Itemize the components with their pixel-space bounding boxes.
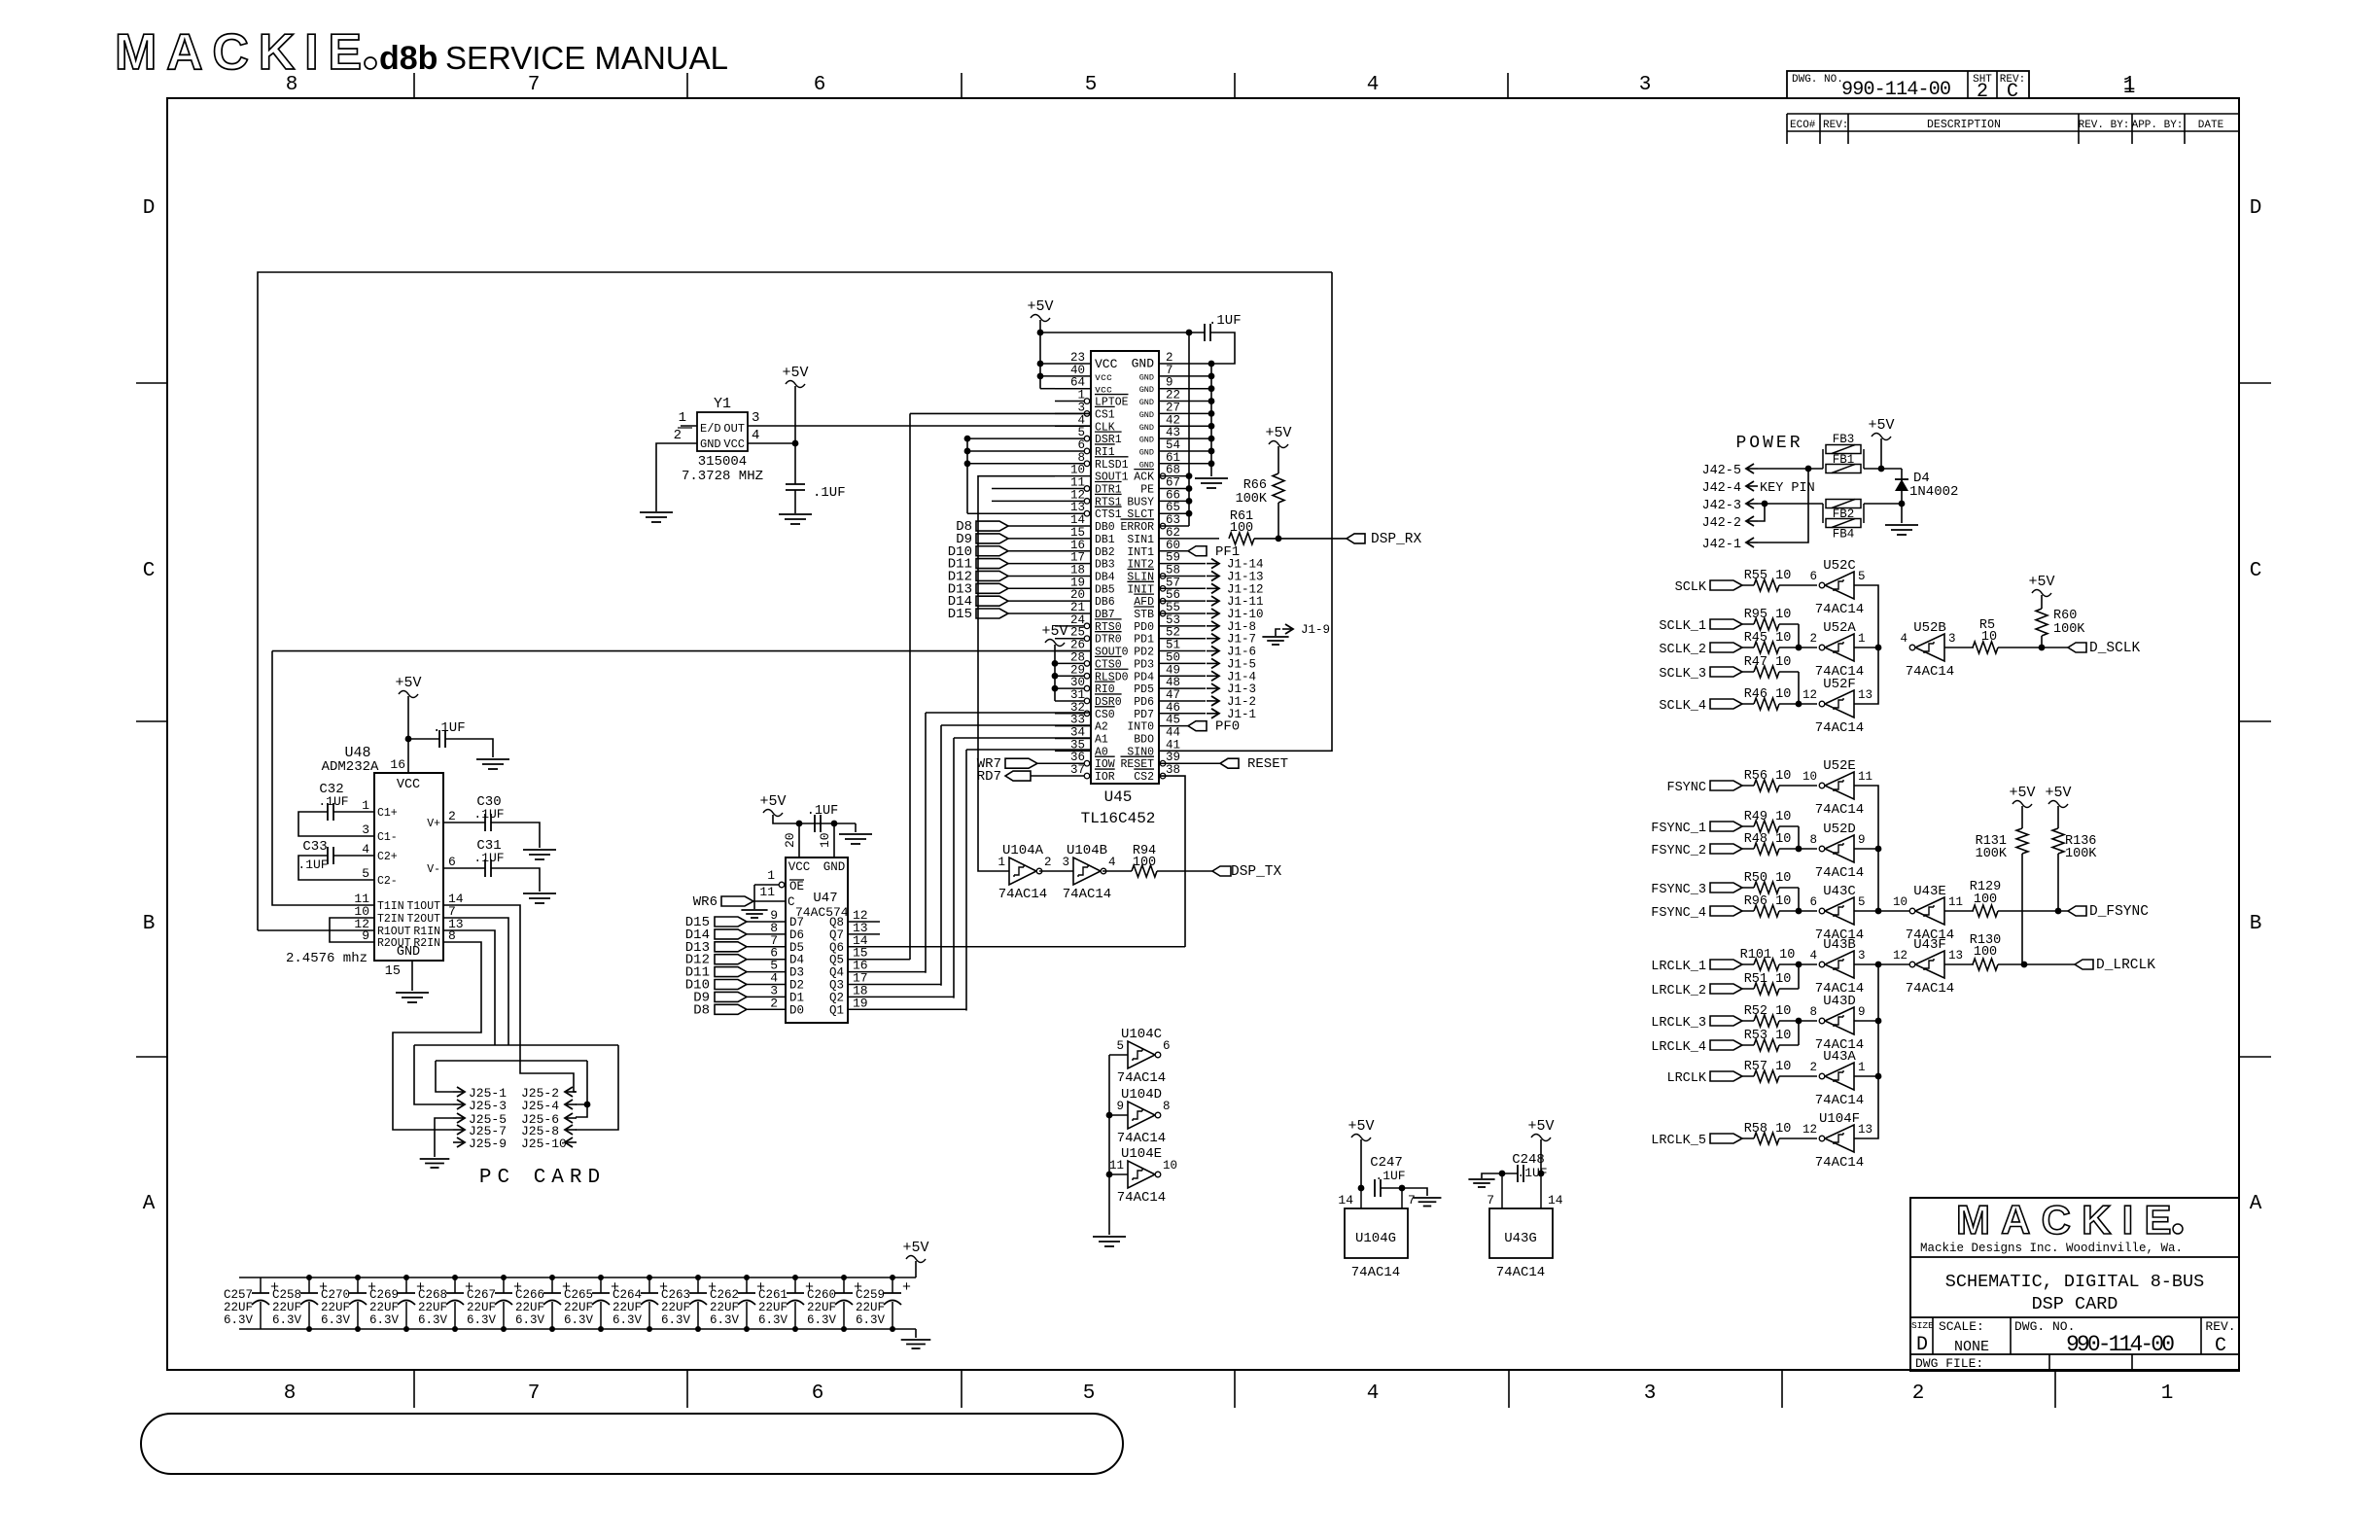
svg-text:GND: GND [1139,423,1154,433]
svg-text:R49 10: R49 10 [1744,810,1792,824]
capacitor C263 22UF 6.3V [697,1277,699,1293]
capacitor C260 22UF 6.3V [843,1277,845,1293]
resistor R5 10 [1973,642,1998,653]
diode D4 1N4002 [1901,469,1903,504]
inverter U104A 74AC14 [1009,857,1036,885]
wire DTR1 stub [992,488,1055,490]
svg-text:74AC14: 74AC14 [1063,887,1111,902]
svg-text:22UF: 22UF [661,1301,690,1314]
resistor R66 100K [1273,473,1284,503]
svg-text:8: 8 [286,74,298,96]
zone tick marks sides [136,382,167,384]
svg-text:100K: 100K [2065,847,2097,861]
svg-text:.1UF: .1UF [1517,1166,1547,1180]
svg-text:+5V: +5V [759,793,786,810]
svg-text:PD3: PD3 [1134,658,1154,671]
wire U47 Q2 to U45 A1 [953,738,955,998]
svg-text:ERROR: ERROR [1120,521,1154,534]
svg-text:7: 7 [1487,1193,1494,1207]
svg-text:8: 8 [1163,1100,1171,1113]
svg-text:C2-: C2- [377,875,398,888]
svg-text:C262: C262 [710,1288,739,1302]
inverter U104C 74AC14 [1109,1054,1128,1056]
svg-text:.1UF: .1UF [807,804,838,819]
wire U45 printer status bus ACK PE BUSY SLCT ERROR [1188,332,1190,526]
svg-text:11: 11 [759,885,775,899]
svg-text:C263: C263 [661,1288,690,1302]
svg-text:6: 6 [1809,895,1817,909]
svg-text:FSYNC: FSYNC [1666,781,1706,795]
svg-text:R45 10: R45 10 [1744,631,1792,646]
svg-text:C259: C259 [856,1288,885,1302]
svg-text:+5V: +5V [1027,298,1053,315]
capacitor C264 22UF 6.3V [648,1277,650,1293]
svg-text:15: 15 [385,964,401,979]
svg-text:22UF: 22UF [272,1301,301,1314]
svg-text:C1+: C1+ [377,807,398,820]
wire J42-1 join [1758,469,1808,542]
svg-text:E/D: E/D [700,422,721,436]
svg-text:U47: U47 [813,891,837,906]
wire R1OUT to U45 SIN0 outer loop [258,272,1332,930]
svg-text:VCC: VCC [397,778,420,792]
svg-text:DESCRIPTION: DESCRIPTION [1927,119,2001,131]
svg-text:d8b: d8b [379,40,437,77]
svg-text:ADM232A: ADM232A [322,759,379,775]
svg-text:U104A: U104A [1002,843,1044,858]
svg-text:8: 8 [284,1382,297,1405]
svg-text:Q6: Q6 [829,941,844,955]
svg-text:FSYNC_2: FSYNC_2 [1651,844,1706,858]
svg-text:74AC14: 74AC14 [1117,1131,1166,1146]
svg-text:VCC: VCC [723,437,745,451]
svg-text:13: 13 [1948,949,1963,962]
svg-text:J25-3: J25-3 [469,1099,507,1113]
svg-text:100K: 100K [2053,622,2085,637]
svg-text:U52C: U52C [1823,558,1856,574]
svg-text:2: 2 [1809,1061,1817,1074]
svg-text:6.3V: 6.3V [467,1313,497,1327]
svg-text:C260: C260 [807,1288,836,1302]
svg-text:13: 13 [1858,1123,1872,1137]
svg-text:CS2: CS2 [1134,771,1154,784]
svg-text:FSYNC_3: FSYNC_3 [1651,883,1706,897]
svg-text:DSP CARD: DSP CARD [2032,1294,2118,1314]
svg-text:74AC14: 74AC14 [1815,1093,1864,1108]
svg-text:100: 100 [1974,892,1997,907]
svg-text:C264: C264 [612,1288,642,1302]
net DSP_RX [1347,534,1365,543]
svg-text:U45: U45 [1104,788,1133,806]
svg-text:D_FSYNC: D_FSYNC [2089,904,2149,920]
svg-text:DB2: DB2 [1095,546,1115,559]
svg-text:REV. BY:: REV. BY: [2079,120,2130,131]
svg-text:TL16C452: TL16C452 [1081,810,1156,827]
svg-text:74AC14: 74AC14 [1496,1265,1545,1280]
svg-text:3: 3 [1639,74,1652,96]
svg-text:SCLK_2: SCLK_2 [1659,643,1706,657]
capacitor .1UF at Y1 [786,483,805,485]
svg-text:+: + [902,1279,911,1296]
capacitor C33 .1UF [333,855,374,857]
svg-text:R96 10: R96 10 [1744,894,1792,909]
svg-text:DB5: DB5 [1095,583,1115,596]
svg-text:C266: C266 [515,1288,544,1302]
svg-text:J25-10: J25-10 [521,1137,567,1151]
svg-text:SCHEMATIC, DIGITAL 8-BUS: SCHEMATIC, DIGITAL 8-BUS [1945,1272,2204,1292]
svg-text:U52D: U52D [1823,822,1856,837]
U45 left pins with numbers and names [1055,363,1091,365]
IC U48 ADM232A [374,773,443,961]
svg-text:+5V: +5V [2028,574,2054,590]
svg-text:D0: D0 [789,1003,804,1017]
svg-text:+5V: +5V [1041,623,1067,640]
svg-text:1: 1 [767,868,775,883]
inverter U52A 74AC14 [1825,634,1854,661]
svg-text:22UF: 22UF [856,1301,885,1314]
svg-text:U104G: U104G [1355,1231,1396,1246]
wire J42-3 ground input [1758,503,1823,505]
IC U43G power pins 74AC14 [1489,1208,1553,1258]
ground U104G pin 7 [1414,1197,1442,1199]
U47 OE pin 1 [754,884,786,886]
inverter U52D 74AC14 [1825,835,1854,862]
svg-text:2: 2 [770,996,778,1010]
svg-text:20: 20 [783,832,797,848]
svg-text:315004: 315004 [698,454,747,470]
svg-text:J42-2: J42-2 [1701,516,1741,531]
ground power section [1885,524,1918,526]
svg-text:6.3V: 6.3V [758,1313,788,1327]
svg-text:J42-4: J42-4 [1701,481,1741,496]
svg-text:C269: C269 [369,1288,399,1302]
svg-text:22UF: 22UF [515,1301,544,1314]
svg-text:+5V: +5V [2009,785,2035,801]
resistor R94 100 [1132,865,1157,877]
svg-text:37: 37 [1070,763,1085,777]
svg-text:22UF: 22UF [369,1301,399,1314]
svg-text:5: 5 [1858,895,1866,909]
capacitor .1UF U47 decoupling [814,815,816,832]
svg-text:5: 5 [1085,74,1098,96]
svg-text:4: 4 [1108,856,1116,869]
svg-text:74AC14: 74AC14 [1351,1265,1400,1280]
svg-text:DB3: DB3 [1095,559,1115,572]
net PF0 [1159,725,1188,727]
svg-text:6: 6 [1809,570,1817,583]
svg-text:B: B [143,913,156,935]
svg-text:1: 1 [2161,1382,2174,1405]
svg-text:22UF: 22UF [758,1301,787,1314]
ground Y1 decoupling [779,513,812,515]
svg-text:C261: C261 [758,1288,787,1302]
svg-text:C: C [143,560,156,582]
svg-text:DB0: DB0 [1095,521,1115,534]
svg-text:74AC14: 74AC14 [1815,865,1864,881]
svg-text:2: 2 [674,428,682,443]
svg-text:GND: GND [397,945,420,960]
ground U47 OE [741,909,767,911]
svg-text:R60: R60 [2053,609,2077,623]
svg-text:C: C [2007,81,2018,103]
capacitor C265 22UF 6.3V [600,1277,602,1293]
svg-text:RD7: RD7 [977,769,1001,785]
svg-text:LRCLK_3: LRCLK_3 [1651,1016,1706,1031]
svg-text:C33: C33 [302,839,327,855]
svg-text:PD2: PD2 [1134,647,1154,659]
svg-text:D: D [2250,197,2262,220]
svg-text:100K: 100K [1236,492,1268,507]
svg-text:GND: GND [700,437,721,451]
wire SIN0 to R1OUT loop [1159,272,1332,751]
svg-text:R48 10: R48 10 [1744,832,1792,847]
svg-text:100: 100 [1230,521,1253,536]
svg-text:SERVICE MANUAL: SERVICE MANUAL [445,40,728,76]
svg-text:U43A: U43A [1823,1049,1856,1065]
svg-text:GND: GND [1139,460,1154,470]
svg-text:D_SCLK: D_SCLK [2089,641,2141,656]
svg-text:6.3V: 6.3V [612,1313,643,1327]
svg-text:6: 6 [812,1382,824,1405]
svg-text:7: 7 [1408,1193,1416,1207]
IC U104G power pins 74AC14 [1345,1208,1408,1258]
ground U47 decoupling [839,833,872,835]
svg-text:100: 100 [1133,856,1156,870]
svg-text:12: 12 [1893,949,1907,962]
capacitor C262 22UF 6.3V [746,1277,748,1293]
svg-text:14: 14 [1548,1193,1563,1207]
svg-text:U104B: U104B [1067,843,1107,858]
svg-text:REV:: REV: [1823,120,1848,131]
svg-text:2: 2 [1809,632,1817,646]
svg-text:22UF: 22UF [321,1301,350,1314]
svg-text:+5V: +5V [902,1240,928,1256]
svg-text:REV.: REV. [2205,1319,2235,1334]
svg-text:FB2: FB2 [1833,507,1855,521]
svg-text:RLSD1: RLSD1 [1095,459,1129,472]
svg-text:GND: GND [823,860,846,874]
svg-text:U52A: U52A [1823,620,1856,636]
wire RTS1 stub [992,500,1055,502]
net RESET [1159,762,1220,764]
wire J42-5 +5V input [1758,468,1823,470]
ferrite beads FB2 FB4 parallel [1822,504,1824,523]
svg-text:R101 10: R101 10 [1740,948,1796,962]
svg-text:.1UF: .1UF [318,794,348,809]
ground capacitor bank [901,1339,931,1341]
svg-text:NONE: NONE [1954,1339,1989,1355]
svg-text:6.3V: 6.3V [418,1313,448,1327]
svg-text:+5V: +5V [1265,425,1291,441]
wire J25-1 J25-4 J25-6 loopback [436,1060,587,1062]
capacitor C267 22UF 6.3V [503,1277,505,1293]
resistor R131 100K [2016,828,2028,854]
svg-text:PE: PE [1140,484,1154,497]
wire SOUT0 to U48 T1IN [272,650,1091,652]
rounded rectangle placeholder bottom [141,1414,1123,1474]
svg-text:.1UF: .1UF [433,720,466,736]
wire CS2 to U47 Q6 [1159,776,1185,947]
svg-text:U43C: U43C [1823,884,1856,899]
svg-text:13: 13 [1858,688,1872,702]
MACKIE logo title block [1956,1197,2183,1242]
svg-text:1: 1 [1858,632,1866,646]
svg-text:J42-1: J42-1 [1701,538,1741,552]
inverter U52B 74AC14 [1915,634,1944,661]
drawing number box 990-114-00 SHT 2 REV C [1787,71,2029,98]
svg-text:ACK: ACK [1134,472,1154,484]
svg-text:9: 9 [1858,1005,1866,1019]
resistor R129 100 [1973,905,1998,917]
svg-text:10: 10 [1893,895,1907,909]
svg-text:IOR: IOR [1095,771,1115,784]
resistor R136 100K [2052,828,2064,854]
capacitor C257 22UF 6.3V [260,1277,262,1293]
svg-text:DB6: DB6 [1095,596,1115,609]
svg-text:8: 8 [1809,1005,1817,1019]
inverter U104B 74AC14 [1073,857,1101,885]
svg-text:U43E: U43E [1913,884,1946,899]
svg-text:.1UF: .1UF [1208,313,1242,329]
svg-text:DWG FILE:: DWG FILE: [1915,1356,1983,1371]
U47 VCC pin 20 GND pin 10 [798,823,800,857]
svg-text:.1UF: .1UF [1375,1169,1405,1183]
svg-text:990-114-00: 990-114-00 [2066,1332,2175,1357]
svg-text:J25-4: J25-4 [521,1099,559,1113]
svg-text:74AC14: 74AC14 [1815,1155,1864,1171]
net DSP_TX [1212,866,1231,876]
svg-text:PD7: PD7 [1134,709,1154,721]
svg-text:9: 9 [1858,833,1866,847]
svg-text:10: 10 [1802,770,1817,784]
wire CS1 from U47 Q5 [910,412,1091,414]
svg-text:74AC14: 74AC14 [1906,981,1954,997]
svg-text:C257: C257 [224,1288,253,1302]
inverter U52E 74AC14 [1825,772,1854,799]
svg-text:R46 10: R46 10 [1744,687,1792,702]
zone tick marks bottom [413,1370,415,1408]
svg-text:.1UF: .1UF [813,485,846,501]
svg-text:SIZE: SIZE [1911,1320,1934,1331]
IC U47 74AC574 [786,857,848,1023]
capacitor C32 .1UF [333,811,374,813]
svg-text:U52F: U52F [1823,677,1856,692]
svg-text:6.3V: 6.3V [856,1313,886,1327]
svg-text:2: 2 [1977,81,1988,103]
svg-text:990-114-00: 990-114-00 [1841,79,1951,101]
svg-text:Q2: Q2 [829,991,844,1004]
svg-text:11: 11 [1858,770,1872,784]
net PF1 [1159,550,1188,552]
capacitor C248 .1UF [1517,1165,1519,1182]
net D_LRCLK [2075,960,2093,969]
net D_FSYNC [2068,906,2086,916]
svg-text:R56 10: R56 10 [1744,769,1792,784]
inverter U43E 74AC14 [1915,897,1944,925]
capacitor C269 22UF 6.3V [405,1277,407,1293]
svg-text:D4: D4 [789,954,804,967]
inverter U52C 74AC14 [1825,572,1854,599]
svg-text:R47 10: R47 10 [1744,655,1792,670]
svg-text:6.3V: 6.3V [564,1313,594,1327]
svg-text:C258: C258 [272,1288,301,1302]
svg-text:10: 10 [1981,630,1997,645]
svg-text:STB: STB [1134,609,1154,621]
svg-text:10: 10 [1163,1159,1177,1172]
svg-text:74AC14: 74AC14 [1815,720,1864,736]
svg-text:U52B: U52B [1913,620,1946,636]
ground J25-5 [420,1158,450,1160]
capacitor C270 22UF 6.3V [357,1277,359,1293]
svg-text:SCLK: SCLK [1675,580,1707,595]
svg-text:4: 4 [1809,949,1817,962]
svg-text:R51 10: R51 10 [1744,972,1792,987]
svg-text:38: 38 [1166,763,1180,777]
inverter U52F 74AC14 [1825,690,1854,717]
svg-text:INT1: INT1 [1127,546,1154,559]
wire R1OUT [258,929,374,931]
capacitor C258 22UF 6.3V [308,1277,310,1293]
svg-text:SCLK_4: SCLK_4 [1659,699,1706,714]
svg-text:5: 5 [1083,1382,1096,1405]
title block [1910,1198,2239,1371]
svg-text:DB1: DB1 [1095,534,1115,546]
svg-text:SIN1: SIN1 [1127,534,1154,546]
oscillator Y1 315004 7.3728 MHZ [697,412,748,451]
resistor R61 100 [1229,533,1254,544]
svg-text:6.3V: 6.3V [272,1313,302,1327]
bulk capacitor bank C257-C270 22UF 6.3V [239,1277,916,1278]
svg-text:FSYNC_4: FSYNC_4 [1651,906,1706,921]
svg-text:LRCLK_1: LRCLK_1 [1651,960,1706,974]
wire R2IN to J25-7 [393,942,481,1130]
svg-text:Y1: Y1 [714,396,731,412]
inverter U43C 74AC14 [1825,897,1854,925]
svg-text:6.3V: 6.3V [224,1313,254,1327]
svg-text:74AC14: 74AC14 [1117,1070,1166,1086]
svg-text:74AC14: 74AC14 [1117,1190,1166,1206]
svg-text:U104C: U104C [1121,1027,1162,1042]
wire SOUT1 to U104A [978,476,1055,871]
svg-text:7: 7 [528,74,541,96]
svg-text:DWG. NO.: DWG. NO. [1792,74,1843,86]
inverter U43D 74AC14 [1825,1007,1854,1034]
svg-text:C265: C265 [564,1288,593,1302]
wire J25-3 J25-8 row [414,1044,618,1046]
svg-text:GND: GND [1139,447,1154,457]
wire LRCLK buffer input join [1854,964,1878,1138]
svg-text:22UF: 22UF [418,1301,447,1314]
svg-text:U43F: U43F [1913,937,1946,953]
capacitor C266 22UF 6.3V [551,1277,553,1293]
svg-text:D_LRCLK: D_LRCLK [2096,958,2155,973]
svg-text:10: 10 [818,832,832,848]
svg-text:.1UF: .1UF [473,807,504,822]
svg-text:RESET: RESET [1247,756,1288,772]
svg-text:V-: V- [427,863,440,876]
svg-text:R55 10: R55 10 [1744,569,1792,583]
svg-text:VCC: VCC [1095,357,1118,371]
svg-text:6: 6 [448,855,456,869]
svg-text:74AC14: 74AC14 [998,887,1047,902]
svg-text:GND: GND [1139,372,1154,382]
svg-text:T2IN: T2IN [377,913,404,926]
svg-text:D: D [143,197,156,220]
capacitor .1UF U48 decoupling [438,730,440,748]
svg-text:OE: OE [789,880,804,893]
svg-text:FB4: FB4 [1833,528,1855,542]
svg-text:22UF: 22UF [710,1301,739,1314]
